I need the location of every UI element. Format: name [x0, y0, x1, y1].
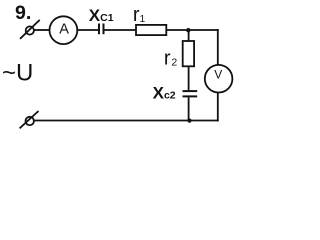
svg-text:9.: 9. — [15, 2, 31, 24]
svg-text:~U: ~U — [2, 60, 33, 87]
svg-text:A: A — [59, 22, 69, 38]
svg-text:V: V — [214, 68, 222, 82]
